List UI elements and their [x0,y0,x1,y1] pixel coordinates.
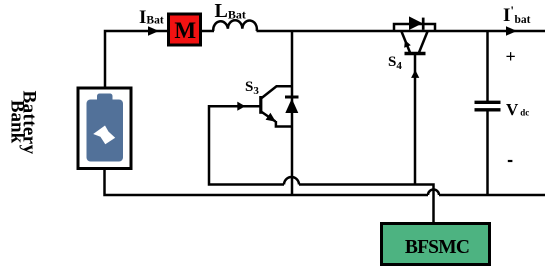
wire bottom bus (battery negative return) [105,170,429,195]
svg-text:LBat: LBat [215,0,246,22]
current arrow I'bat [506,26,517,35]
svg-text:Vdc: Vdc [506,100,529,119]
arrow into S4 gate [411,70,419,78]
transistor S4 [402,32,428,54]
svg-text:BFSMC: BFSMC [405,237,469,258]
ammeter M [169,14,201,45]
wire S3 branch vertical [291,31,294,195]
diode D3 (anti-parallel with S3) [285,97,299,113]
wire battery positive to ammeter M [105,31,167,87]
wire control bus to BFSMC [299,185,434,223]
svg-text:S3: S3 [245,79,259,97]
battery bank [78,88,131,169]
crossover hop on bottom bus [428,190,439,195]
capacitor C (Vdc) [475,102,501,110]
label - [508,160,513,162]
svg-text:IBat: IBat [139,7,164,28]
inductor L_Bat [213,20,257,31]
diode D4 loop wire [394,24,435,31]
wire capacitor branch bottom [486,111,489,196]
wire ammeter M to inductor [202,30,214,33]
svg-text:I'bat: I'bat [503,3,531,26]
wire capacitor branch top [486,31,489,102]
wire through S4 collector-emitter [394,30,435,33]
svg-text:M: M [174,18,196,43]
current arrow I_Bat [148,26,159,35]
svg-text:Bank: Bank [7,100,28,144]
crossover hop over S3 vertical [284,177,299,185]
diode D4 [409,16,423,30]
wire S3 gate line [209,106,284,184]
svg-text:S4: S4 [388,54,402,72]
wire bottom bus right of hop [439,194,545,197]
controller BFSMC [382,224,490,265]
wire S4 right node to output [435,30,545,33]
arrow into S3 base [237,102,245,111]
wire inductor to S4 left node [257,30,395,33]
wire S4 gate vertical [414,54,417,185]
svg-text:+: + [506,47,516,67]
transistor S3 [261,86,292,126]
